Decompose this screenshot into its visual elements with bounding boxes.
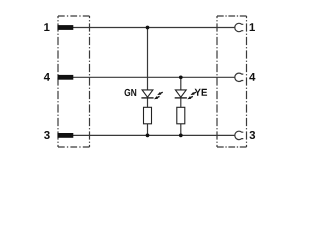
- label YE: [195, 89, 207, 96]
- male contact pin 4: [58, 75, 74, 80]
- wire pin1: [73, 27, 235, 29]
- wire pin4: [73, 76, 235, 78]
- wire branch GN vertical: [147, 28, 149, 136]
- resistor R2: [177, 107, 185, 124]
- female contact pin 1: [235, 23, 244, 31]
- right connector box (dash-dot): [217, 16, 247, 147]
- label right pin 3: [249, 131, 255, 139]
- LED YE arrow a: [190, 91, 197, 96]
- label right pin 1: [250, 23, 255, 31]
- resistor R1: [144, 107, 152, 124]
- female contact pin 3: [235, 131, 244, 139]
- male contact pin 3: [58, 133, 74, 138]
- LED GN cathode bar: [141, 97, 153, 99]
- LED YE triangle: [175, 90, 186, 97]
- LED GN arrow a: [157, 91, 164, 96]
- label GN: [125, 89, 137, 96]
- male contact pin 1: [58, 25, 74, 30]
- LED GN triangle: [142, 90, 153, 97]
- junction node wire1/branch GN: [146, 26, 150, 30]
- wire pin3: [73, 134, 235, 136]
- junction node wire4/branch YE: [179, 75, 183, 79]
- label left pin 3: [44, 131, 50, 139]
- junction node wire3/branch GN: [146, 134, 150, 138]
- left connector box (dash-dot): [58, 16, 90, 147]
- LED GN arrow b: [153, 95, 160, 100]
- LED YE cathode bar: [175, 97, 187, 99]
- label right pin 4: [249, 73, 255, 81]
- female contact pin 4: [235, 73, 244, 81]
- LED YE arrow b: [187, 95, 194, 100]
- wire branch YE vertical: [180, 77, 182, 135]
- label left pin 1: [44, 23, 49, 31]
- junction node wire3/branch YE: [179, 134, 183, 138]
- label left pin 4: [44, 73, 50, 81]
